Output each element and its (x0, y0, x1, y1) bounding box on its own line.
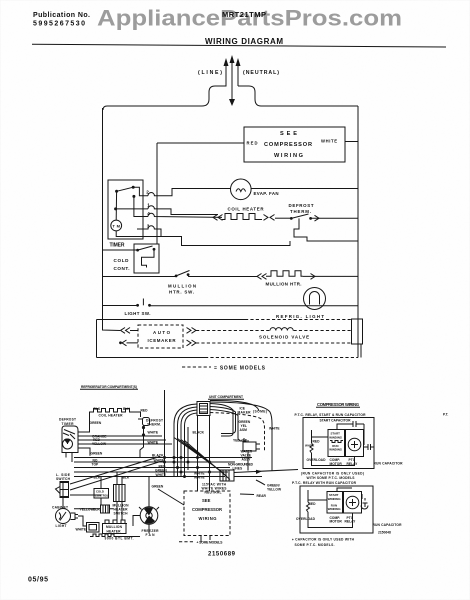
some models note (179, 541, 194, 543)
defrost therm pictorial (143, 418, 150, 426)
wire white from compressor box (345, 141, 358, 143)
timer wire terminal 1 (116, 208, 148, 210)
wires box2 (308, 500, 344, 503)
wire solenoid to connector dashed (294, 330, 352, 332)
svg-text:COIL HEATER: COIL HEATER (99, 413, 124, 417)
header rule (32, 44, 446, 47)
svg-text:ASM: ASM (240, 428, 248, 432)
svg-text:COLD: COLD (114, 258, 130, 263)
wire bus to cold control (103, 249, 138, 251)
svg-text:WHITE: WHITE (194, 476, 205, 480)
wires bus to mullion switch (117, 472, 122, 524)
timer motor bottom wire (116, 231, 161, 237)
timer motor TM (111, 220, 122, 231)
svg-text:GREEN: GREEN (152, 485, 164, 489)
mullion heater label box (103, 524, 127, 534)
wire bottom edge dashed (205, 357, 358, 359)
plug ground prong arrow up (230, 55, 235, 63)
right connector box (352, 319, 363, 344)
svg-text:GREEN: GREEN (90, 421, 102, 425)
svg-text:MULLION: MULLION (168, 284, 196, 289)
publication number (33, 12, 90, 28)
resistor coil heater (222, 214, 262, 220)
box1 (303, 418, 374, 469)
cold control contacts (136, 249, 139, 252)
wire green to compressor box (158, 489, 184, 505)
svg-text:ASSY: ASSY (242, 458, 252, 462)
svg-text:TM: TM (113, 224, 121, 229)
svg-text:(RUN CAPACITOR IS ONLY USED): (RUN CAPACITOR IS ONLY USED) (301, 471, 364, 475)
svg-text:P.T.: P.T. (443, 413, 448, 417)
wire switch to bulb (62, 498, 64, 509)
wire top edge left (103, 106, 202, 110)
start capacitor symbol (337, 421, 364, 437)
wire icemaker to solenoid dashed (196, 330, 270, 332)
coil heater element (90, 409, 135, 413)
svg-text:MRT21TMP: MRT21TMP (222, 10, 266, 19)
wire plug bump left (202, 65, 226, 106)
svg-text:OVERLOAD: OVERLOAD (307, 458, 327, 462)
svg-text:SOLENOID VALVE: SOLENOID VALVE (259, 335, 309, 340)
bus wires (74, 462, 235, 477)
svg-text:WIRING: WIRING (199, 516, 217, 521)
wire cold control (100, 477, 102, 506)
svg-text:= SOME MODELS: = SOME MODELS (214, 366, 266, 372)
svg-text:5995267530: 5995267530 (33, 21, 85, 28)
icemaker lower left terminal (119, 341, 122, 344)
icemaker arrows left (121, 328, 131, 334)
svg-text:AUTO: AUTO (153, 330, 171, 335)
cold control bellows (142, 249, 155, 267)
svg-text:BLK: BLK (93, 508, 100, 512)
svg-text:EVAP. FAN: EVAP. FAN (254, 191, 279, 196)
wires connector down (174, 404, 210, 491)
svg-text:1: 1 (147, 203, 150, 208)
wire to icemaker (130, 330, 138, 332)
svg-text:+ SOME MODELS: + SOME MODELS (197, 541, 224, 545)
plug prong NEUTRAL arrow (236, 58, 241, 66)
svg-text:WHITE: WHITE (156, 473, 167, 477)
svg-text:MAKER: MAKER (238, 411, 252, 415)
svg-text:BLK: BLK (123, 475, 130, 479)
svg-text:SEE: SEE (280, 131, 297, 137)
cold control box (134, 244, 159, 273)
svg-text:WITH SOME P.T.C. MODELS: WITH SOME P.T.C. MODELS (307, 476, 356, 480)
svg-text:FAN: FAN (146, 533, 156, 537)
defrost therm contacts (290, 217, 293, 220)
water valve (244, 438, 248, 442)
plug prong LINE arrow (224, 58, 229, 66)
freezer fan (140, 507, 158, 525)
svg-text:RED: RED (141, 408, 149, 412)
icemaker arrows right bottom (187, 340, 197, 346)
wire left lower bus (96, 320, 98, 358)
wire to mullion heater (188, 276, 257, 278)
svg-text:DEFROST: DEFROST (289, 203, 314, 208)
svg-text:4: 4 (147, 211, 150, 216)
icemaker box dashed (138, 325, 183, 348)
timer box (108, 180, 143, 239)
wire red to compressor box (157, 142, 244, 144)
cabinet light bulb (56, 509, 71, 524)
legend some models (182, 366, 211, 368)
wire light switch to lamp (150, 305, 359, 307)
wire plug bump right (238, 65, 358, 106)
connector below cold control (101, 505, 110, 513)
terminal 4 hop (148, 213, 222, 217)
svg-text:WHITE: WHITE (148, 431, 159, 435)
wires connector right (234, 470, 298, 477)
wires timer to bundle (74, 436, 252, 458)
winding box 1 (328, 430, 345, 457)
svg-text:P.T.C. RELAY WITH RUN CAPACITO: P.T.C. RELAY WITH RUN CAPACITOR (292, 481, 357, 485)
svg-text:Publication No.: Publication No. (33, 12, 90, 19)
plug ground prong (231, 62, 233, 99)
svg-text:UNIT COMPARTMENT: UNIT COMPARTMENT (209, 395, 243, 399)
svg-text:YELLOW: YELLOW (92, 442, 107, 446)
svg-text:(LINE): (LINE) (198, 70, 222, 76)
compressor box text (247, 131, 338, 159)
svg-text:HEATER: HEATER (107, 529, 122, 533)
defrost arrows right (315, 215, 320, 221)
svg-text:LIGHT SW.: LIGHT SW. (125, 311, 151, 316)
svg-text:3: 3 (147, 223, 150, 228)
svg-text:COMPRESSOR: COMPRESSOR (192, 507, 222, 512)
coil heater arrows right (264, 215, 275, 221)
svg-text:(SOME): (SOME) (253, 409, 267, 413)
svg-text:OVERLOAD: OVERLOAD (296, 517, 316, 521)
wire therm to bus (312, 217, 359, 219)
svg-text:WINDING: WINDING (329, 435, 343, 439)
big diagonals (174, 438, 230, 480)
bundle junction dots (164, 457, 211, 478)
svg-text:REFRIGERATOR COMPARTMENT(S): REFRIGERATOR COMPARTMENT(S) (81, 385, 137, 389)
svg-text:2150648: 2150648 (378, 531, 391, 535)
cold control label (114, 258, 130, 271)
svg-text:REFRIG. LIGHT: REFRIG. LIGHT (276, 314, 324, 319)
coil heater arrows left (213, 215, 223, 221)
svg-text:YELLOW: YELLOW (267, 488, 282, 492)
svg-text:REAR: REAR (257, 494, 267, 498)
svg-text:COIL HEATER: COIL HEATER (228, 207, 265, 212)
svg-text:SWITCH: SWITCH (114, 512, 129, 516)
wire left bus (103, 108, 121, 331)
mullion heater switch body (114, 485, 126, 502)
svg-text:WHITE: WHITE (305, 444, 314, 448)
timer blade (117, 187, 134, 191)
solenoid valve coil (270, 328, 293, 331)
svg-text:P.T.C. RELAY, START & RUN CAPA: P.T.C. RELAY, START & RUN CAPACITOR (295, 413, 367, 417)
wire to mullion heater switch (74, 508, 114, 510)
wire fan to bus (251, 188, 358, 190)
L side switch body (60, 482, 69, 498)
resistor mullion heater (266, 271, 303, 277)
svg-text:BLK: BLK (123, 407, 130, 411)
overload symbol 2 (307, 490, 353, 528)
wire fan up (133, 477, 149, 534)
wire to green yellow (256, 480, 265, 485)
evap fan motor (231, 179, 252, 200)
wire to defrost therm (275, 217, 291, 219)
defrost therm sensing bracket (294, 218, 358, 241)
svg-text:START CAPACITOR: START CAPACITOR (320, 419, 352, 423)
svg-text:RUN CAPACITOR: RUN CAPACITOR (373, 523, 403, 527)
mullion heater connector (87, 523, 100, 533)
timer wire terminal 2 jog (133, 187, 148, 196)
wires timer bottom leads (66, 453, 72, 463)
svg-text:NEUTRAL: NEUTRAL (205, 491, 222, 495)
wire bottom edge solid (97, 357, 206, 359)
mullion heater element (103, 520, 127, 524)
svg-text:TIMER: TIMER (110, 243, 125, 249)
vertical wire bundle (165, 390, 189, 477)
line connector P (220, 470, 234, 481)
refrig light lamp (304, 288, 326, 310)
wires connector curves (210, 400, 272, 470)
svg-text:COMPRESSOR: COMPRESSOR (264, 142, 312, 148)
wire icemaker bottom dashed (196, 342, 352, 344)
wire heater to defrost therm (135, 412, 141, 417)
svg-text:ICEMAKER: ICEMAKER (148, 338, 177, 343)
svg-text:2: 2 (146, 190, 149, 195)
compressor feed vertical wire (156, 143, 158, 244)
wire bulb to connector (78, 516, 87, 526)
svg-text:WINDING: WINDING (328, 497, 342, 501)
wires below compressor box (201, 536, 210, 543)
svg-text:WIRING: WIRING (274, 153, 303, 159)
ground arrow (229, 99, 235, 106)
svg-text:CONT.: CONT. (114, 266, 130, 271)
timer contact dots (132, 186, 135, 189)
defrost therm label (289, 203, 314, 214)
svg-text:SEE: SEE (202, 498, 211, 503)
svg-text:RUN CAPACITOR: RUN CAPACITOR (374, 461, 404, 465)
svg-text:BLACK: BLACK (193, 431, 205, 435)
svg-text:CONTROL: CONTROL (95, 494, 109, 498)
wire mullion to bus (303, 275, 358, 277)
svg-text:LIGHT: LIGHT (56, 524, 67, 528)
svg-text:SWITCH: SWITCH (56, 477, 71, 481)
svg-text:THERM.: THERM. (290, 209, 311, 214)
svg-text:GREEN: GREEN (91, 452, 103, 456)
mullion heater arrows right (311, 274, 316, 280)
terminal 3 wire (137, 226, 290, 246)
svg-text:WHITE: WHITE (76, 528, 87, 532)
run capacitor symbol 1 (364, 444, 374, 450)
svg-text:RED: RED (309, 502, 317, 506)
see compressor wiring dashed box (184, 491, 230, 536)
wire right bus (357, 106, 359, 358)
svg-text:♦ CAPACITOR IS ONLY USED WITH: ♦ CAPACITOR IS ONLY USED WITH (292, 537, 355, 541)
svg-text:WINDING: WINDING (328, 507, 342, 511)
mullion heater arrows left (257, 274, 267, 280)
svg-text:MOTOR: MOTOR (330, 520, 343, 524)
svg-text:WHITE: WHITE (321, 139, 337, 144)
defrost timer body (62, 426, 78, 453)
terminal 2 hop (148, 189, 231, 196)
svg-text:TOP: TOP (92, 463, 100, 467)
overload symbol 1 (310, 430, 355, 466)
svg-text:9000 BTL BMT.: 9000 BTL BMT. (105, 537, 134, 541)
unit compartment connector (197, 402, 210, 416)
timer wire terminal 4 (134, 196, 148, 216)
svg-text:WINDING: WINDING (329, 448, 343, 452)
wire heater bottom (90, 534, 140, 537)
svg-text:SOME P.T.C. MODELS.: SOME P.T.C. MODELS. (295, 543, 335, 547)
svg-text:HTR. SW.: HTR. SW. (169, 289, 194, 294)
icemaker arrows right top (187, 328, 197, 334)
timer pole vertical (115, 191, 117, 220)
ptc relay box 1 (346, 430, 364, 457)
wire row some-models (97, 319, 246, 321)
svg-text:COMPRESSOR WIRING: COMPRESSOR WIRING (317, 402, 359, 407)
svg-text:TIMER: TIMER (62, 422, 75, 426)
svg-text:THERM.: THERM. (147, 423, 161, 427)
svg-text:WHITE: WHITE (269, 427, 280, 431)
svg-text:DEFROST: DEFROST (59, 418, 76, 422)
cold control mini box (94, 489, 109, 499)
svg-text:RED: RED (247, 141, 258, 146)
svg-text:2150689: 2150689 (208, 551, 236, 557)
terminal labels (146, 190, 150, 229)
winding box 2 (327, 492, 343, 514)
wire ice maker dashed (210, 413, 265, 453)
svg-text:05/95: 05/95 (28, 577, 48, 584)
ptc relay box 2 (344, 492, 362, 514)
svg-text:MULLION HTR.: MULLION HTR. (266, 282, 302, 287)
wires box1 top (312, 427, 365, 445)
capacitor symbol 2 (337, 488, 368, 509)
wire connector to bottom (360, 344, 362, 358)
terminal 1 hop (148, 206, 218, 215)
compressor box (244, 127, 345, 162)
box2 (300, 486, 373, 533)
light switch (103, 305, 138, 307)
svg-text:(NEUTRAL): (NEUTRAL) (243, 70, 279, 76)
svg-text:WIRING DIAGRAM: WIRING DIAGRAM (205, 37, 283, 46)
wires switch to bus (70, 457, 162, 496)
wire timer to coil heater (78, 412, 90, 433)
svg-text:RELAY: RELAY (345, 520, 357, 524)
mullion heater switch (103, 276, 177, 278)
